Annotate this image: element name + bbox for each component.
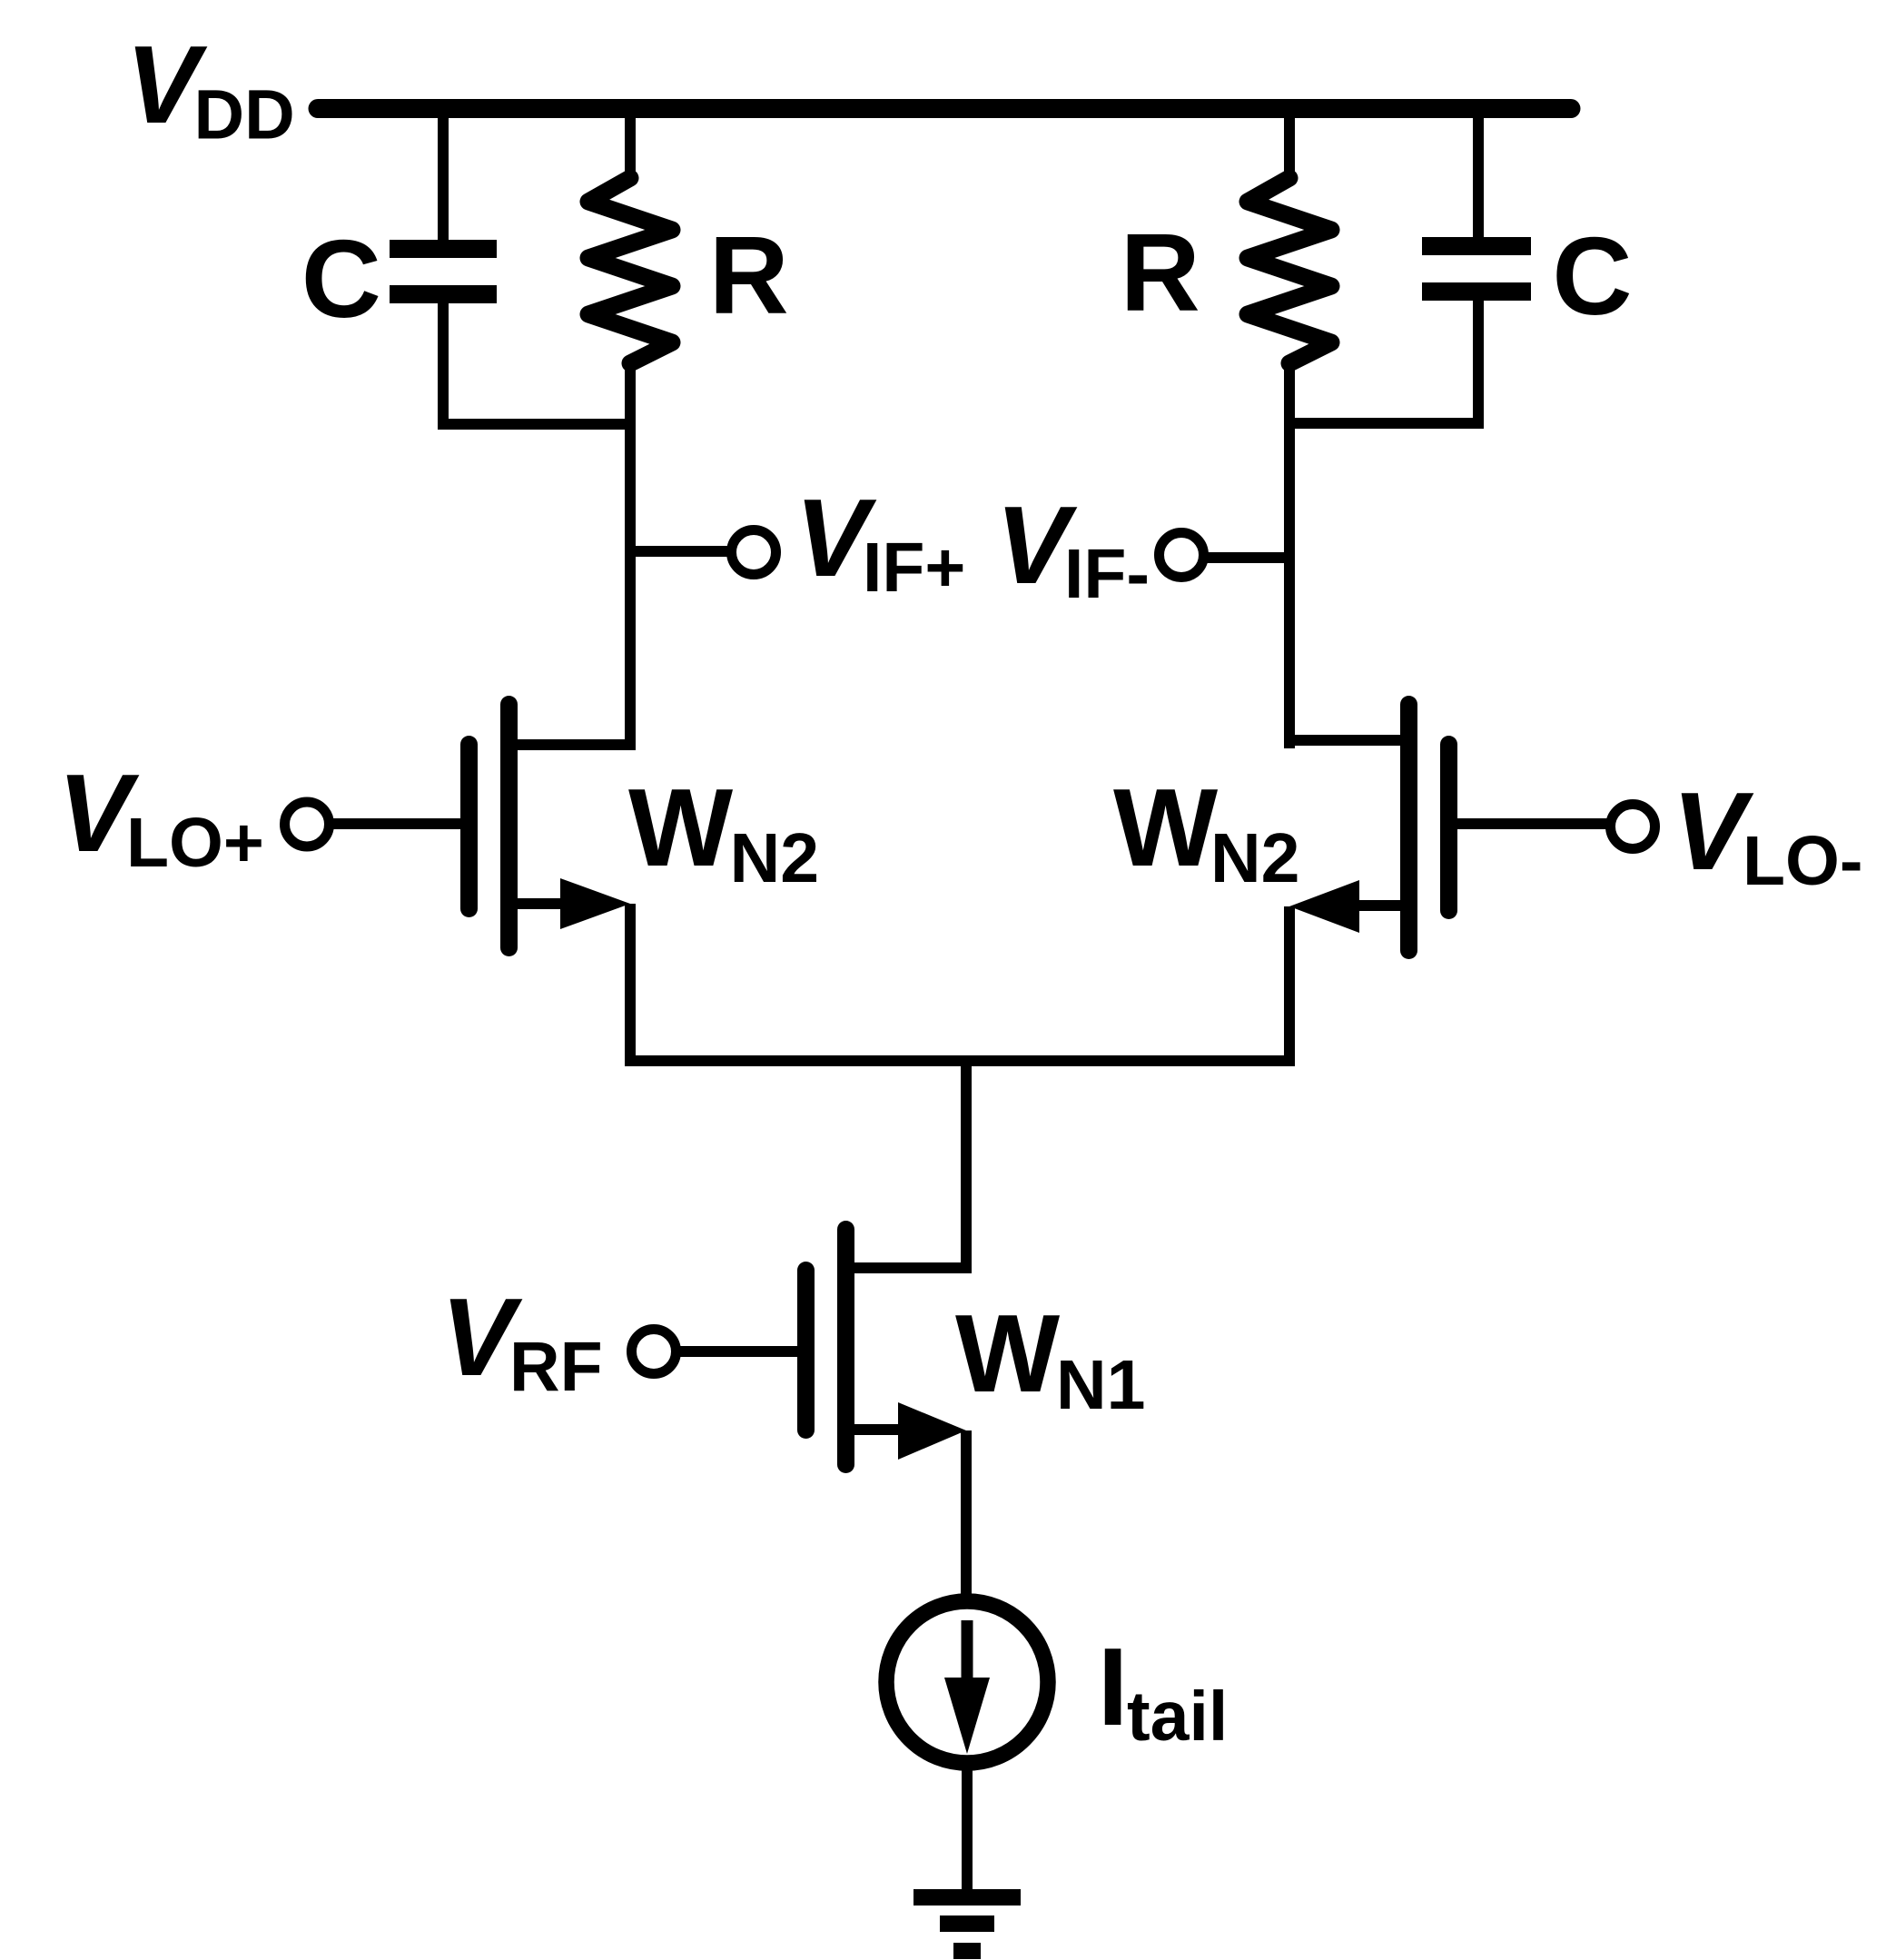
wire: tail join horizontal	[625, 1055, 1295, 1066]
svg-text:LO-: LO-	[1743, 822, 1863, 900]
node VIF- stub	[1201, 552, 1295, 563]
resistor R (right)	[1248, 178, 1331, 363]
node VLO- label	[1673, 769, 1863, 900]
svg-text:R: R	[709, 213, 789, 337]
wire: M3 source drop to current source	[961, 1430, 972, 1599]
svg-text:V: V	[1673, 769, 1754, 893]
svg-text:N2: N2	[1210, 819, 1299, 897]
wire: M1 gate lead	[327, 818, 460, 829]
wire: left C branch drop from rail	[438, 114, 449, 242]
current source Itail label	[1098, 1625, 1229, 1756]
transistor M2 label WN2	[1113, 766, 1299, 897]
wire: M3 source horizontal	[851, 1424, 904, 1435]
svg-text:IF+: IF+	[863, 529, 965, 607]
wire: left R bottom lead down to M1 drain	[625, 361, 636, 748]
wire: right R bottom lead down to M2 drain	[1284, 361, 1295, 748]
VDD rail	[318, 99, 1571, 118]
node VLO+ terminal circle	[285, 802, 330, 846]
svg-text:W: W	[955, 1292, 1061, 1415]
svg-text:IF-: IF-	[1064, 535, 1150, 613]
svg-text:C: C	[1552, 214, 1632, 338]
node VIF+ label	[795, 476, 966, 607]
wire: M1 source horizontal	[514, 898, 581, 909]
current source Itail circle	[886, 1601, 1048, 1763]
node VIF- label	[996, 483, 1150, 613]
arrow: M3 source (points right)	[898, 1402, 966, 1460]
node VDD label	[126, 23, 295, 154]
svg-text:R: R	[1121, 211, 1200, 334]
arrow: M2 source (points left)	[1289, 880, 1359, 933]
wire: left R drop from rail	[625, 114, 636, 180]
node VIF- terminal circle	[1160, 533, 1204, 578]
svg-text:W: W	[628, 766, 734, 889]
svg-text:DD: DD	[194, 76, 295, 154]
resistor R (left)	[588, 178, 672, 363]
svg-text:W: W	[1113, 766, 1219, 889]
node VIF+ stub	[630, 546, 734, 557]
transistor M3 (WN1) gate bar	[797, 1262, 815, 1439]
node VIF+ terminal circle	[732, 530, 776, 575]
node VRF label	[441, 1275, 603, 1406]
wire: right C branch drop from rail	[1473, 114, 1484, 242]
transistor M2 (right WN2) channel bar	[1400, 696, 1417, 959]
wire: left C-R bottom join	[438, 419, 636, 430]
wire: tail drop to M3 drain	[961, 1061, 972, 1273]
svg-text:N2: N2	[730, 819, 819, 897]
transistor M3 label WN1	[955, 1292, 1145, 1424]
svg-text:LO+: LO+	[126, 804, 264, 882]
transistor M1 (left WN2) gate bar	[460, 736, 478, 917]
transistor M1 channel bar	[500, 696, 518, 956]
transistor M1 label WN2	[628, 766, 819, 897]
wire: M1 source drop	[625, 904, 636, 1066]
ground bar 3	[953, 1943, 981, 1959]
wire: M3 gate lead	[674, 1346, 797, 1357]
capacitor C (left) top plate	[390, 240, 497, 258]
wire: right R-C bottom join	[1284, 418, 1484, 429]
svg-text:I: I	[1098, 1625, 1129, 1748]
wire: left C bottom lead	[438, 303, 449, 430]
capacitor C (right) top plate	[1422, 237, 1531, 255]
wire: M2 source horizontal	[1342, 900, 1404, 911]
wire: right R drop from rail	[1284, 114, 1295, 180]
ground bar 2	[940, 1915, 994, 1932]
capacitor C (right) bottom plate	[1422, 282, 1531, 301]
svg-text:RF: RF	[509, 1328, 603, 1406]
wire: M3 drain horizontal	[851, 1262, 972, 1273]
arrow: M1 source (points right)	[560, 878, 630, 929]
wire: current source to ground	[962, 1763, 973, 1894]
svg-text:C: C	[301, 217, 381, 341]
wire: M2 drain horizontal	[1284, 735, 1404, 746]
transistor M3 channel bar	[837, 1221, 854, 1473]
capacitor C (left) bottom plate	[390, 285, 497, 303]
current source arrowhead	[944, 1678, 990, 1754]
svg-text:N1: N1	[1056, 1346, 1145, 1424]
node VLO+ label	[58, 751, 264, 882]
transistor M2 gate bar	[1440, 736, 1457, 919]
ground bar 1	[913, 1889, 1021, 1906]
current source arrow shaft	[962, 1620, 973, 1688]
svg-text:tail: tail	[1127, 1678, 1228, 1756]
wire: M2 source drop	[1284, 906, 1295, 1066]
node VLO- terminal circle	[1611, 805, 1655, 849]
wire: M2 gate lead	[1457, 818, 1611, 829]
wire: right C bottom lead	[1473, 301, 1484, 429]
node VRF terminal circle	[632, 1330, 676, 1374]
wire: M1 drain horizontal	[514, 739, 636, 750]
